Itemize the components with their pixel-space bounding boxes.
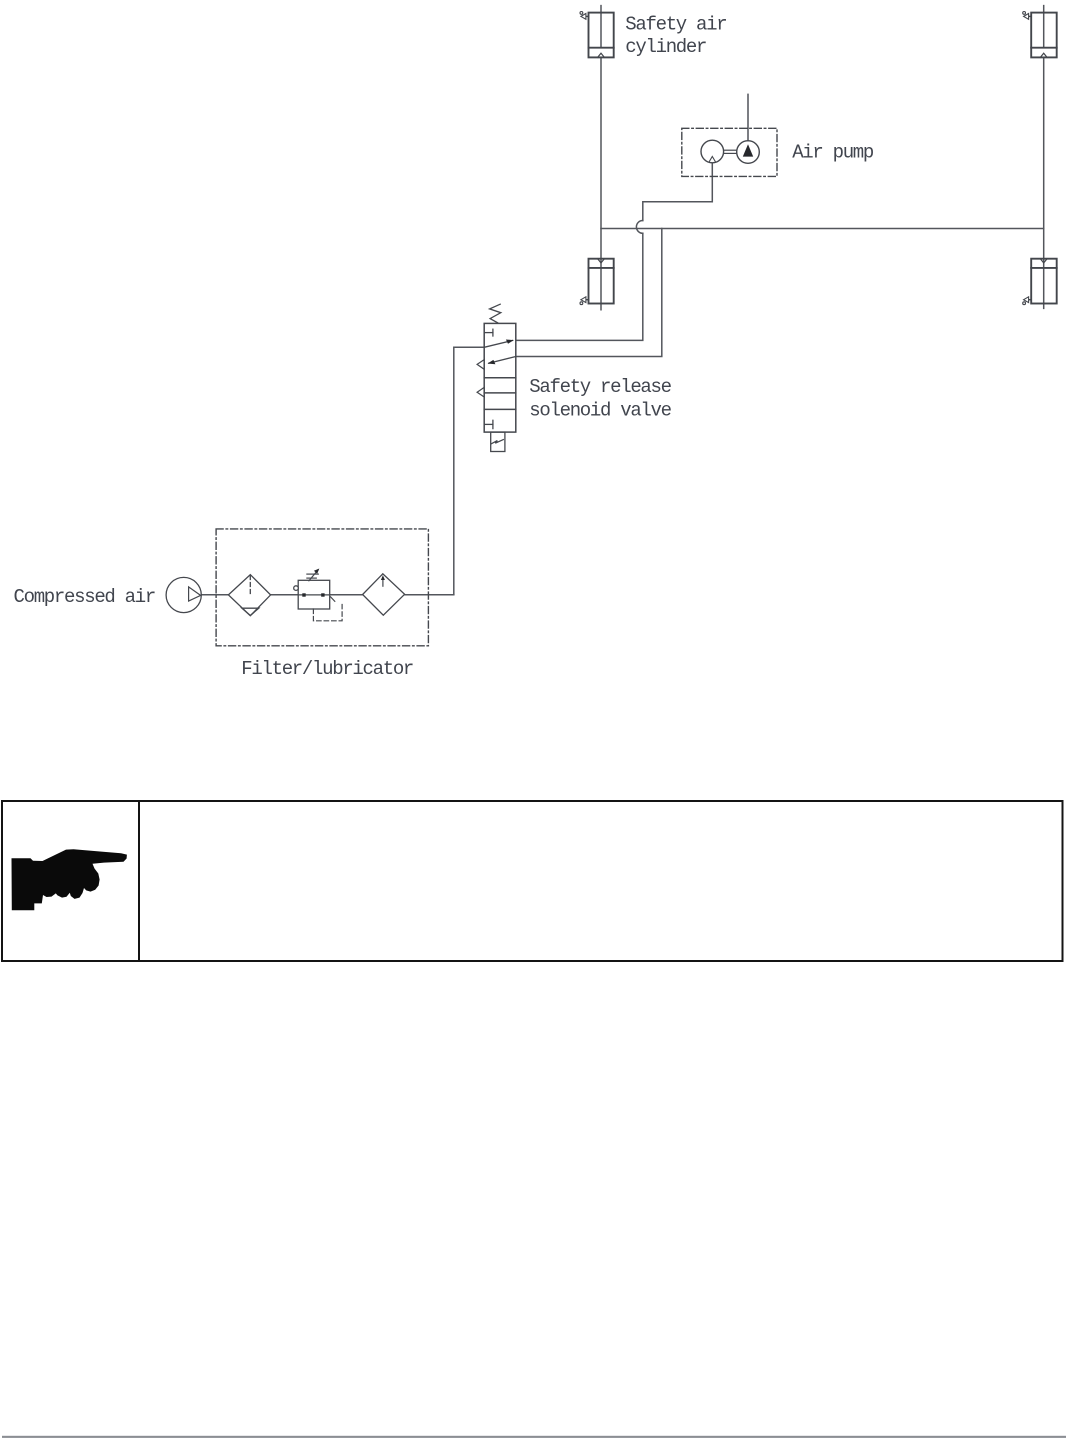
note box frame <box>2 801 1063 961</box>
label: Air pump <box>792 142 874 164</box>
regulator R1: adjustment arrow on top <box>307 569 319 581</box>
cylinder C1: top-left safety air cylinder <box>580 12 614 58</box>
valve V1: solenoid actuator box <box>491 432 505 451</box>
filter F1: diamond with water separator <box>228 575 270 616</box>
cylinder C2: top-right safety air cylinder <box>1023 12 1057 58</box>
wire: bus to valve lower right port <box>516 229 662 357</box>
valve V1: flow arrow upper (to right port) <box>484 340 514 348</box>
air pump P1: coupling shaft between circles <box>724 150 737 153</box>
compressed air source S1: circle with flow triangle <box>166 577 201 612</box>
regulator R1: dashed pilot feedback line <box>313 597 342 621</box>
air pump P1 dashed enclosure <box>682 128 777 176</box>
wire: horizontal air bus between cylinders <box>601 228 1044 230</box>
label: Filter/lubricator <box>241 658 413 680</box>
cylinder C4: bottom-right safety air cylinder <box>1023 259 1057 305</box>
svg-text:Safety air: Safety air <box>625 14 726 36</box>
valve V1: return spring (top zigzag) <box>490 304 501 323</box>
wire: left vertical rod line (top cylinder to bottom cylinder through bus) <box>600 6 602 310</box>
valve V1: lower exhaust triangle <box>477 387 484 397</box>
valve V1: bottom-left blocked port symbol <box>484 420 493 428</box>
svg-text:Air pump: Air pump <box>792 142 874 164</box>
air pump P1: pump circle (right) with filled flow triangle and outlet stub <box>737 94 760 163</box>
regulator R1: pressure regulator square <box>294 580 330 609</box>
filter/lubricator dashed enclosure <box>216 529 428 646</box>
wire: valve left port down to filter/lubricator outlet <box>454 347 484 594</box>
label: Safety air cylinder <box>625 14 726 58</box>
label: Safety release solenoid valve <box>529 376 671 422</box>
valve V1: upper exhaust triangle <box>477 360 484 370</box>
air pump P1: motor circle (left) with intake triangle <box>701 140 724 163</box>
svg-text:Safety release: Safety release <box>529 376 671 398</box>
svg-text:Compressed air: Compressed air <box>14 586 155 608</box>
cylinder C3: bottom-left safety air cylinder <box>580 259 614 305</box>
wire: right vertical rod line (top cylinder to bottom cylinder through bus) <box>1043 6 1045 309</box>
footer rule <box>2 1436 1066 1438</box>
wire: main supply line from compressed air source through filter group <box>201 594 454 596</box>
svg-text:cylinder: cylinder <box>625 36 706 58</box>
wire: air pump drop line with hop over bus, to valve upper right port <box>516 163 713 341</box>
lubricator L1: diamond with drip arrow <box>363 574 405 615</box>
valve V1: flow arrow lower (to left exhaust) <box>488 357 516 365</box>
valve V1: top-left blocked port symbol <box>484 329 493 336</box>
label: Compressed air <box>14 586 155 608</box>
svg-text:solenoid valve: solenoid valve <box>529 400 671 422</box>
valve V1: safety release solenoid valve body <box>484 323 516 432</box>
note icon: pointing hand (manicule) <box>12 849 127 910</box>
svg-text:Filter/lubricator: Filter/lubricator <box>241 658 413 680</box>
